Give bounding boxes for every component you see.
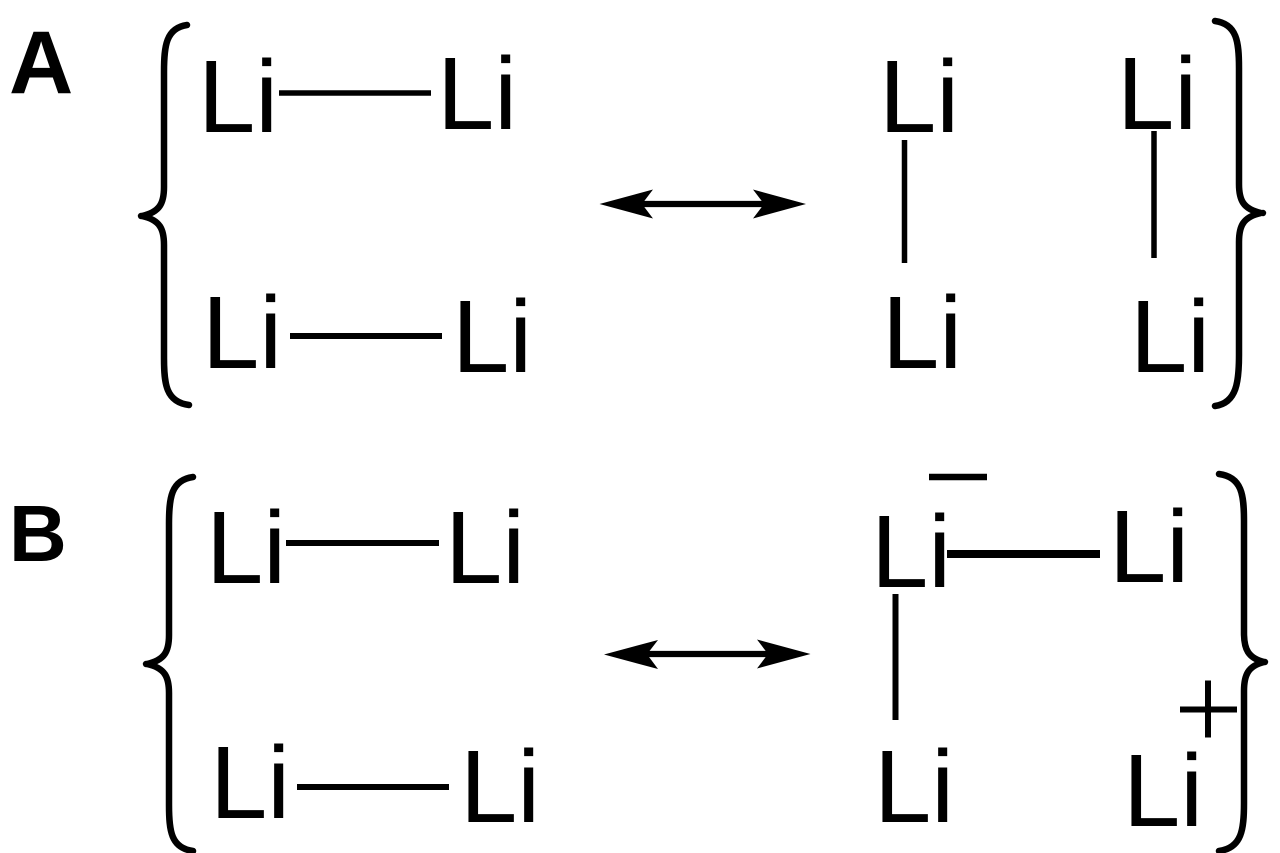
bond A1 [279, 90, 431, 96]
svg-text:Li: Li [1109, 489, 1189, 604]
bond B3 [947, 550, 1100, 558]
svg-text:B: B [9, 489, 67, 578]
svg-text:Li: Li [437, 36, 517, 151]
svg-text:Li: Li [879, 39, 959, 154]
svg-text:Li: Li [206, 490, 286, 605]
bond A3 vertical [902, 140, 908, 263]
svg-text:Li: Li [202, 275, 282, 390]
charge plus [1180, 681, 1237, 738]
svg-text:Li: Li [1117, 36, 1197, 151]
svg-text:A: A [9, 12, 73, 112]
svg-text:Li: Li [445, 490, 525, 605]
charge minus [929, 474, 987, 481]
brace right A [1215, 21, 1266, 406]
bond B4 vertical [893, 594, 899, 720]
resonance arrow B [604, 640, 811, 670]
svg-text:Li: Li [882, 275, 962, 390]
brace left A [138, 25, 189, 405]
brace right B [1219, 474, 1268, 851]
svg-text:Li: Li [460, 729, 540, 844]
bond A4 vertical [1151, 131, 1157, 258]
svg-text:Li: Li [871, 494, 951, 609]
svg-text:Li: Li [1130, 279, 1210, 394]
svg-text:Li: Li [874, 729, 954, 844]
svg-text:Li: Li [210, 725, 290, 840]
bond B1 [286, 540, 439, 546]
brace left B [143, 477, 193, 851]
bond B2 [297, 784, 449, 790]
svg-text:Li: Li [1123, 733, 1203, 848]
resonance arrow A [600, 190, 807, 219]
bond A2 [290, 333, 442, 339]
svg-text:Li: Li [452, 279, 532, 394]
svg-text:Li: Li [198, 39, 278, 154]
